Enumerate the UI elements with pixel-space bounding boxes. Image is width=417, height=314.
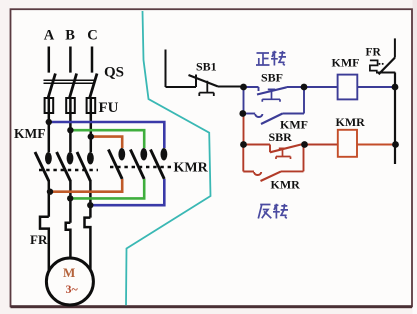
svg-text:KMF: KMF	[14, 126, 46, 141]
svg-text:SBR: SBR	[269, 130, 293, 144]
svg-text:QS: QS	[104, 65, 124, 81]
svg-text:KMR: KMR	[174, 161, 209, 176]
svg-text:FR: FR	[30, 232, 48, 247]
svg-text:FU: FU	[99, 100, 119, 116]
svg-text:B: B	[65, 28, 75, 44]
svg-text:M: M	[63, 265, 75, 280]
svg-text:3~: 3~	[66, 282, 79, 296]
svg-text:KMR: KMR	[271, 178, 301, 192]
svg-text:C: C	[87, 28, 97, 44]
svg-text:SBF: SBF	[261, 71, 283, 85]
svg-text:A: A	[44, 28, 55, 44]
svg-text:FR: FR	[366, 46, 382, 58]
svg-text:SB1: SB1	[196, 60, 217, 74]
svg-text:KMR: KMR	[336, 115, 366, 129]
svg-text:KMF: KMF	[332, 56, 360, 70]
